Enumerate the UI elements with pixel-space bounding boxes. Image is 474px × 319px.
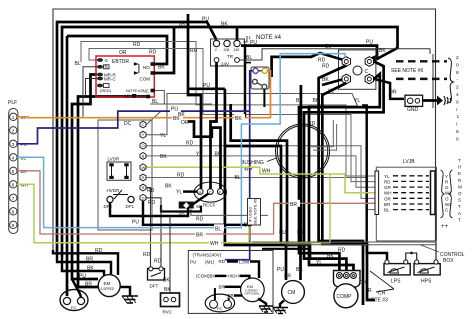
svg-text:O: O	[445, 196, 449, 201]
svg-text:EBTDR: EBTDR	[112, 59, 129, 65]
wire BK to RVC	[163, 216, 171, 293]
svg-text:3-SPEED: 3-SPEED	[101, 287, 115, 291]
wire thick RB2 bushing line	[225, 146, 281, 245]
contactor coil	[353, 66, 369, 75]
svg-text:BR: BR	[284, 274, 291, 280]
PM pin 3	[253, 79, 258, 84]
brace field supply	[448, 58, 453, 103]
relay LVDR	[107, 157, 131, 181]
wire into FC 2	[72, 279, 81, 297]
svg-text:PU: PU	[203, 83, 210, 89]
wire gray RD to LVJB YL row	[81, 42, 375, 177]
wire thick SA bar	[161, 205, 201, 212]
transformer TR box	[211, 39, 245, 67]
DC terminal W	[140, 164, 146, 171]
svg-text:HVDR: HVDR	[107, 188, 121, 193]
motor EM main	[98, 275, 120, 297]
svg-text:BK: BK	[322, 77, 329, 83]
LVJB strip left	[375, 171, 379, 215]
svg-text:SD: SD	[196, 204, 203, 209]
svg-text:BOX: BOX	[443, 258, 454, 264]
svg-text:NOTE #3: NOTE #3	[367, 298, 388, 304]
LVJB strip right	[431, 171, 436, 215]
svg-text:BK: BK	[164, 287, 171, 293]
svg-text:OR: OR	[181, 120, 189, 126]
svg-text:DC: DC	[124, 121, 132, 127]
LVJB rows	[384, 174, 429, 213]
thermostat letters	[445, 174, 452, 213]
device SA	[179, 202, 194, 216]
svg-text:R: R	[368, 288, 372, 294]
svg-text:T: T	[458, 217, 461, 222]
wire SA to RCCF C	[193, 194, 209, 210]
svg-text:BK: BK	[165, 184, 172, 190]
contactor terminal T1	[342, 74, 350, 84]
svg-text:24V: 24V	[221, 62, 229, 67]
wire navy PU from PLF3	[17, 105, 250, 144]
svg-text:RD: RD	[219, 259, 226, 264]
terminal DF2	[104, 196, 114, 209]
wire thick RD into T2	[272, 53, 342, 77]
relay HVDR	[107, 188, 129, 199]
wire thick EBTDR COM up m3b	[155, 27, 175, 73]
svg-text:2: 2	[456, 85, 459, 91]
wire thick DF bridge	[110, 203, 188, 217]
svg-text:Y: Y	[445, 174, 448, 179]
svg-text:YL: YL	[176, 190, 182, 196]
svg-text:PU: PU	[202, 17, 209, 23]
svg-text:OPTIONAL: OPTIONAL	[245, 292, 261, 296]
svg-text:CH: CH	[378, 291, 386, 297]
svg-text:LVJB: LVJB	[403, 159, 415, 165]
wire thin BL EBTDR NC to DC C	[147, 91, 213, 125]
RCCF terminal H	[197, 189, 203, 195]
svg-text:C: C	[365, 69, 369, 75]
svg-text:O: O	[458, 191, 462, 196]
EBTDR terminal NC	[143, 89, 156, 94]
wire thick m3 to EBTDR NO	[67, 36, 167, 64]
contactor terminal T2	[342, 57, 350, 67]
EBTDR contact link	[134, 62, 139, 75]
svg-text:HIGH: HIGH	[228, 274, 239, 279]
wire gray DC-B to LVJB GR row	[147, 154, 376, 187]
svg-text:RD: RD	[154, 259, 162, 265]
wire thick CM BK	[284, 85, 304, 280]
svg-text:COM: COM	[140, 77, 151, 82]
svg-text:WH: WH	[210, 241, 219, 247]
wire gray stub bushing right 2	[313, 124, 337, 150]
wire orange OR from PM down	[267, 71, 270, 118]
svg-text:BK: BK	[313, 98, 320, 104]
svg-text:YL: YL	[196, 152, 202, 158]
COMP terminal 2	[344, 273, 350, 279]
svg-text:BK: BK	[296, 98, 303, 104]
pressure switch LPS	[384, 260, 410, 285]
wire gray DC-R to LVJB BL row	[147, 173, 376, 210]
wire thick BR bars	[225, 287, 243, 296]
svg-text:0: 0	[456, 62, 459, 68]
wire thin YL DC-Y to contactor coil	[147, 89, 361, 140]
svg-text:RD: RD	[308, 121, 316, 127]
svg-text:BK: BK	[379, 48, 386, 54]
svg-text:H: H	[458, 165, 461, 170]
svg-text:OR: OR	[384, 196, 392, 201]
wire thick A0 to EM RD row	[53, 250, 118, 275]
COMP terminal 1	[337, 273, 343, 279]
svg-text:SEE NOTE #6: SEE NOTE #6	[391, 68, 423, 74]
svg-text:BL: BL	[325, 44, 331, 50]
svg-text:NO: NO	[143, 65, 150, 70]
svg-text:RD: RD	[177, 173, 185, 179]
svg-text:PU: PU	[132, 220, 139, 226]
defrost thermostat DFT	[148, 267, 165, 289]
note marker 1	[243, 35, 252, 42]
svg-text:BL: BL	[75, 61, 81, 67]
wire thick BK top m2 to contactor L3	[62, 27, 398, 257]
wire LPS to HPS	[406, 252, 417, 260]
wire thick EBTDR M2 to EM BR	[78, 97, 150, 288]
svg-text:A: A	[458, 211, 461, 216]
svg-text:MR-C: MR-C	[104, 77, 116, 82]
relay EBTDR red box	[96, 56, 154, 97]
TR bottom terminal L	[214, 58, 219, 63]
PLF pin 5	[10, 167, 28, 174]
wire thick vA to vC link	[188, 83, 225, 89]
note box IF USED SEE NOTE #5	[248, 198, 261, 225]
svg-text:GND: GND	[407, 107, 419, 113]
svg-text:NOTE #2: NOTE #2	[126, 88, 143, 93]
svg-text:CH: CH	[359, 280, 367, 286]
DC terminal D	[140, 194, 146, 201]
wire YL to RCCF H	[176, 190, 197, 196]
svg-text:BR: BR	[290, 202, 297, 208]
svg-text:BK: BK	[87, 266, 94, 272]
svg-text:G: G	[445, 185, 449, 190]
svg-text:PU: PU	[190, 260, 196, 265]
defrost control DC board	[98, 120, 152, 230]
svg-text:M1: M1	[125, 94, 132, 99]
svg-text:YL: YL	[160, 133, 166, 139]
connector PLF	[8, 100, 18, 234]
wire green stub below note box	[248, 225, 250, 241]
text NOTE #4	[256, 35, 282, 41]
EBTDR terminal M1	[125, 94, 137, 99]
EBTDR terminal SEC	[97, 84, 109, 88]
thermostat brace right	[449, 170, 453, 218]
svg-text:BR: BR	[384, 202, 391, 207]
svg-text:R: R	[142, 175, 145, 180]
control box outline	[252, 242, 465, 264]
wire RD DC-D to DFT	[147, 198, 162, 267]
wire RD DC-R2 to DFT	[143, 188, 155, 267]
svg-text:240: 240	[234, 48, 240, 52]
wire thick PU top m1	[57, 22, 217, 252]
svg-text:(RED): (RED)	[100, 88, 112, 93]
wire frame inner edge right	[432, 54, 434, 108]
svg-text:RD: RD	[196, 217, 204, 223]
wire MR-C stub	[86, 79, 98, 97]
svg-text:BK: BK	[160, 154, 167, 160]
svg-text:PLF: PLF	[8, 100, 17, 106]
svg-text:G: G	[105, 58, 109, 63]
svg-text:RCCF: RCCF	[203, 203, 216, 208]
svg-text:RD: RD	[186, 141, 194, 147]
svg-text:OR: OR	[119, 50, 127, 56]
field ground symbol	[423, 96, 451, 106]
wire thick control box bottom run	[262, 248, 310, 250]
wire thick BK into T1	[322, 77, 342, 85]
svg-text:BUSHING: BUSHING	[241, 160, 264, 166]
svg-text:++: ++	[441, 224, 449, 230]
svg-text:6: 6	[456, 129, 459, 135]
svg-text:HPS: HPS	[421, 279, 432, 285]
svg-text:SEE NOTE #5: SEE NOTE #5	[253, 198, 258, 225]
DC terminal R	[140, 174, 146, 181]
svg-text:YL: YL	[316, 260, 322, 266]
svg-text:RD: RD	[338, 248, 346, 254]
svg-text:OR: OR	[389, 90, 397, 96]
wire thick COMP BK	[304, 62, 384, 273]
capacitor RCCF	[194, 182, 226, 207]
wire thick vB to RCCF C	[211, 63, 217, 189]
wire thick PU TR240 to contactor L3	[241, 40, 377, 60]
PLF pin 1	[10, 113, 27, 120]
svg-text:H: H	[199, 189, 202, 194]
svg-text:LPS: LPS	[391, 279, 401, 285]
svg-text:NC: NC	[143, 89, 150, 94]
svg-text:DFT: DFT	[150, 284, 159, 289]
svg-text:RD: RD	[149, 50, 157, 56]
svg-text:E: E	[458, 171, 461, 176]
compressor COMP	[334, 271, 361, 308]
wire navy PU from PM to TRANS	[225, 71, 253, 260]
text 208-240/1/60 vertical	[456, 55, 460, 142]
RCCF terminal C	[207, 189, 213, 195]
PM pin link top	[256, 70, 265, 72]
EBTDR terminal M2	[139, 94, 150, 99]
svg-text:NOTE #4: NOTE #4	[256, 35, 282, 41]
svg-text:M2: M2	[139, 94, 146, 99]
contactor terminal L1	[365, 74, 373, 84]
PM pin 1	[253, 68, 258, 73]
PLF pin 7	[10, 194, 17, 201]
svg-text:RD: RD	[133, 42, 141, 48]
wire thick RD LOW bar	[227, 262, 259, 279]
svg-text:CM: CM	[288, 290, 296, 296]
PLF pin 6	[10, 181, 28, 188]
svg-text:T: T	[458, 204, 461, 209]
svg-text:M: M	[458, 184, 462, 189]
terminal DF1	[126, 196, 135, 209]
DC terminal O	[140, 142, 146, 149]
svg-text:PU: PU	[366, 40, 373, 46]
svg-text:BR: BR	[219, 285, 226, 290]
svg-text:1: 1	[457, 114, 460, 120]
TR terminal 208	[224, 40, 231, 52]
svg-text:GR: GR	[384, 185, 392, 190]
contactor C box	[339, 50, 376, 89]
svg-text:BL: BL	[215, 226, 221, 232]
box TRANS240V optional	[188, 251, 273, 314]
text THERMOSTAT vertical	[458, 158, 462, 222]
wire thick COMP YL	[309, 107, 358, 272]
PLF pin 8	[10, 208, 17, 215]
bundle labels	[178, 112, 222, 158]
svg-text:BL: BL	[152, 99, 158, 105]
label BK at EBTDR NO wire	[158, 65, 165, 71]
svg-text:(COM)BK: (COM)BK	[196, 274, 216, 279]
PLF pin 3	[10, 140, 27, 147]
PM pin 4	[262, 84, 267, 89]
thermostat brace left	[441, 170, 445, 218]
text SEE NOTE #6	[391, 68, 423, 74]
wire thick PU from DC-D bottom	[132, 201, 252, 225]
field wiring dashed line 1	[396, 60, 447, 62]
svg-text:0: 0	[456, 136, 459, 142]
svg-text:C: C	[209, 189, 212, 194]
plug PM	[251, 67, 269, 89]
wire thick A2 to EM BK row	[62, 257, 104, 276]
wire thick vA to RCCF H	[188, 14, 201, 189]
wire gray stub bushing right 1	[311, 120, 333, 147]
EBTDR terminal MR-R	[97, 73, 116, 78]
TR bottom terminal R	[235, 58, 240, 63]
wire thick L1 claw to GND lug	[374, 79, 404, 99]
svg-text:PU: PU	[79, 274, 86, 280]
TR terminal C	[213, 40, 219, 52]
svg-text:PU: PU	[277, 267, 284, 273]
svg-text:BL: BL	[235, 175, 241, 181]
PLF pin 9	[10, 221, 17, 228]
svg-text:BK: BK	[158, 65, 165, 71]
wire yellowgreen WH from PLF6	[17, 174, 330, 247]
svg-text:PU: PU	[250, 40, 257, 46]
motor CM	[282, 281, 305, 304]
wire thick to LPS	[362, 48, 397, 260]
svg-text:BR: BR	[86, 257, 93, 263]
svg-text:FC: FC	[217, 306, 222, 311]
ground CM	[273, 301, 288, 314]
EBTDR terminal R	[97, 64, 109, 69]
EBTDR terminal NO	[143, 62, 155, 70]
wire gray OR from EBTDR G to LVJB RD row	[89, 49, 375, 182]
motor EM optional	[241, 278, 265, 302]
junction box LVJB	[376, 159, 436, 241]
DC terminal Y	[140, 131, 146, 138]
svg-text:S: S	[458, 198, 461, 203]
svg-text:FC: FC	[71, 305, 76, 310]
svg-text:RD: RD	[148, 200, 156, 206]
EBTDR terminal G	[97, 58, 109, 63]
contactor terminal L3	[365, 57, 373, 67]
wire salmon BR from PLF5	[17, 171, 375, 239]
TR terminal 240	[234, 40, 241, 52]
fan cap FC optional	[205, 294, 234, 312]
wire BK branch to TR 240	[236, 27, 239, 41]
svg-text:Y: Y	[142, 132, 145, 137]
svg-text:RD: RD	[147, 188, 155, 194]
DC terminal C	[140, 121, 146, 128]
wire thick PU drop past plug	[245, 46, 251, 118]
svg-text:T: T	[458, 158, 461, 163]
wire HPS to control box	[435, 242, 437, 260]
svg-text:D: D	[142, 195, 145, 200]
field wiring dashed line 2	[396, 78, 447, 80]
labels BK BK right bundle	[296, 98, 320, 104]
wire thick T1 fan to CH2	[322, 83, 375, 300]
wire thick BK HIGH bar	[215, 276, 249, 279]
label RD BR BK at EM	[79, 248, 103, 288]
svg-text:4: 4	[456, 92, 459, 98]
labels PU BK top bundle	[179, 17, 228, 28]
svg-text:R: R	[142, 185, 145, 190]
fan cap FC main	[60, 290, 88, 311]
svg-text:2: 2	[456, 55, 459, 61]
PM pin link bottom	[255, 82, 265, 87]
marks ++	[441, 224, 449, 230]
svg-text:BK: BK	[163, 278, 170, 284]
svg-text:(TRANS240V): (TRANS240V)	[193, 253, 222, 258]
svg-text:BR: BR	[215, 152, 222, 158]
svg-text:208: 208	[224, 48, 230, 52]
label RD bushing top	[308, 121, 316, 127]
svg-text:RVC: RVC	[163, 310, 173, 315]
svg-text:8: 8	[456, 70, 459, 76]
wire thin outer frame	[53, 9, 436, 250]
EBTDR terminal COM	[140, 71, 156, 81]
DC terminal B	[140, 153, 146, 160]
svg-text:WH: WH	[384, 191, 392, 196]
svg-text:TR: TR	[227, 54, 234, 59]
PLF pin 2	[10, 127, 17, 134]
wire thick vC middle to bottom run	[225, 89, 310, 260]
svg-text:BK: BK	[296, 267, 303, 273]
svg-text:0: 0	[456, 99, 459, 105]
svg-text:YL: YL	[354, 98, 360, 104]
labels CH R	[359, 280, 372, 294]
svg-text:BR: BR	[85, 282, 92, 288]
wire black from PM pin4 down	[263, 89, 265, 107]
svg-text:BR: BR	[196, 233, 203, 239]
svg-text:RD: RD	[143, 252, 151, 258]
svg-text:SA: SA	[179, 211, 185, 216]
reversing valve coil RVC	[161, 293, 180, 315]
GND lug	[405, 95, 423, 113]
svg-text:YL: YL	[384, 174, 390, 179]
bushing double circle	[241, 124, 330, 178]
ground EM optional	[258, 299, 273, 313]
svg-text:B: B	[142, 153, 145, 158]
wire BL EBTDR R	[75, 61, 98, 118]
svg-text:BK: BK	[235, 116, 242, 122]
DC terminal R2	[140, 184, 146, 191]
svg-text:BK: BK	[221, 22, 228, 28]
wire thick EBTDR MR to EM PU	[72, 75, 98, 280]
text WH labels	[244, 167, 271, 175]
svg-text:(M1): (M1)	[205, 260, 215, 265]
svg-text:RD: RD	[95, 248, 103, 254]
svg-text:RD: RD	[322, 64, 330, 70]
svg-text:BL: BL	[384, 208, 390, 213]
RCCF terminal F	[217, 189, 223, 195]
svg-text:EM: EM	[104, 281, 111, 286]
wires into FC optional	[215, 288, 229, 300]
ground EM main	[120, 287, 138, 303]
pressure switch HPS	[414, 260, 440, 285]
CH callout	[367, 271, 394, 304]
svg-text:W: W	[142, 165, 146, 170]
svg-text:O: O	[142, 143, 145, 148]
